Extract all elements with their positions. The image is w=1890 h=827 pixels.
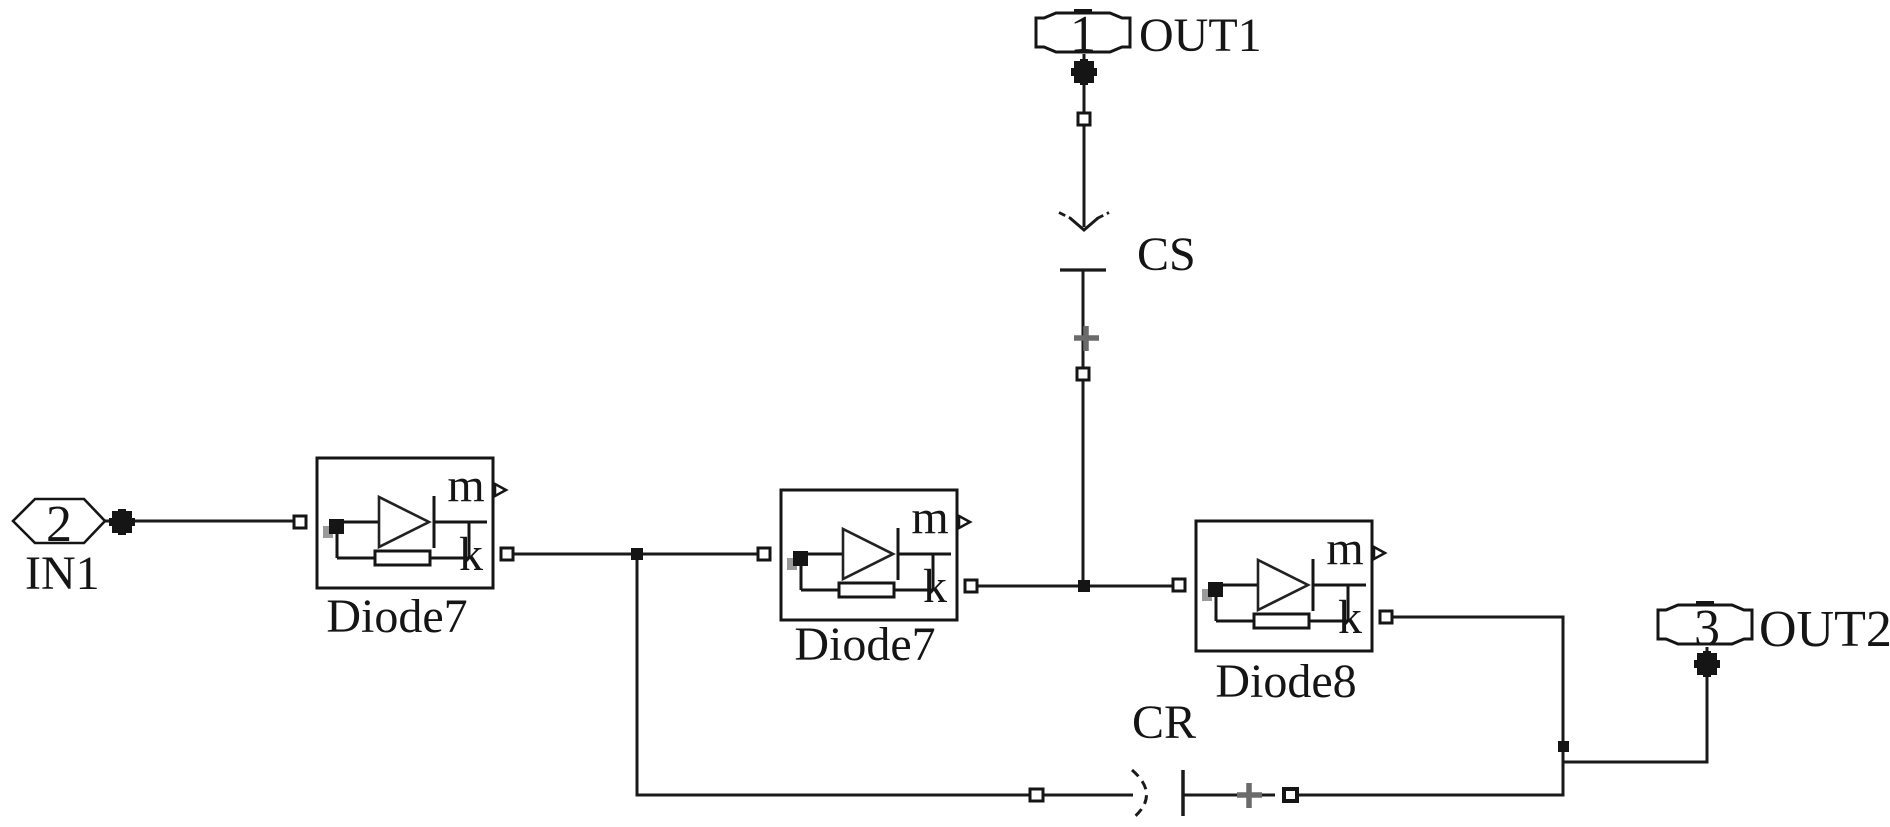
svg-text:OUT2: OUT2 — [1759, 601, 1890, 658]
svg-text:Diode8: Diode8 — [1215, 655, 1356, 708]
svg-text:2: 2 — [46, 496, 72, 553]
svg-text:IN1: IN1 — [25, 547, 100, 600]
svg-text:Diode7: Diode7 — [326, 590, 467, 643]
svg-text:3: 3 — [1694, 600, 1720, 657]
svg-text:1: 1 — [1070, 6, 1096, 63]
svg-text:CR: CR — [1132, 696, 1196, 749]
svg-text:OUT1: OUT1 — [1139, 9, 1262, 62]
svg-text:CS: CS — [1137, 228, 1196, 281]
svg-text:Diode7: Diode7 — [794, 618, 935, 671]
